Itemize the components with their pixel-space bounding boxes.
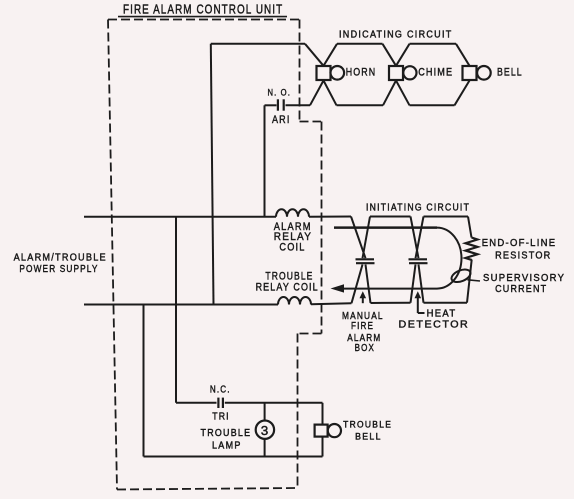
- svg-text:BOX: BOX: [355, 342, 375, 353]
- svg-text:CHIME: CHIME: [418, 67, 453, 79]
- wire: horn top-left diagonal: [305, 44, 324, 66]
- manual box bottom-left diagonal: [352, 265, 363, 304]
- wire: horn bottom-left diagonal: [310, 81, 324, 106]
- dashed enclosure right edge lower segment: [297, 334, 299, 489]
- dashed enclosure left edge: [108, 20, 117, 490]
- svg-text:BELL: BELL: [497, 67, 523, 79]
- wire: chime top-left diagonal: [383, 44, 397, 66]
- contact bar 1 of manual fire alarm box: [356, 258, 375, 260]
- wire: lamp branch upper: [264, 403, 266, 421]
- wire: chime bottom-right diagonal: [396, 81, 410, 106]
- heat detector top-right diagonal: [416, 217, 424, 259]
- wire: indicating return vertical: [211, 44, 214, 305]
- wire: coil to initiating circuit: [309, 216, 351, 218]
- wire: horn bottom-right diagonal: [324, 81, 337, 106]
- svg-text:END-OF-LINE: END-OF-LINE: [482, 238, 557, 249]
- svg-text:HORN: HORN: [346, 67, 376, 79]
- svg-text:TROUBLE: TROUBLE: [343, 419, 392, 429]
- bell appliance gong circle: [477, 66, 491, 80]
- wire: bottom flat chime-bell: [410, 104, 455, 106]
- svg-text:TRI: TRI: [212, 411, 230, 423]
- svg-text:N.C.: N.C.: [210, 384, 231, 395]
- dashed enclosure bottom edge: [117, 488, 298, 490]
- trouble lamp circle: [256, 421, 274, 439]
- manual box bottom-right diagonal: [366, 265, 371, 304]
- trouble bell gong circle: [328, 424, 341, 437]
- svg-text:RELAY COIL: RELAY COIL: [256, 282, 319, 294]
- chime appliance square: [389, 66, 403, 80]
- trouble bell square: [315, 425, 328, 437]
- svg-text:INDICATING CIRCUIT: INDICATING CIRCUIT: [339, 28, 453, 39]
- supervisory loop arc: [437, 228, 461, 289]
- svg-text:RESISTOR: RESISTOR: [495, 250, 551, 262]
- svg-text:POWER SUPPLY: POWER SUPPLY: [19, 263, 98, 274]
- resistor R1 end-of-line: [466, 238, 478, 260]
- initiating device Q1 top-right diagonal: [363, 217, 371, 259]
- svg-text:DETECTOR: DETECTOR: [399, 320, 470, 330]
- wire: EOL top lead: [468, 217, 472, 238]
- alarm relay coil L1: [276, 209, 309, 217]
- wire: initiating top flat between devices: [370, 216, 411, 218]
- pointer arrow to manual fire alarm box: [362, 296, 364, 303]
- wire: trouble bell branch vertical: [143, 305, 145, 457]
- wire: ARI right lead: [286, 104, 311, 106]
- svg-text:FIRE: FIRE: [351, 320, 374, 331]
- svg-text:ALARM/TROUBLE: ALARM/TROUBLE: [14, 252, 107, 264]
- wire: bottom return to trouble bell: [144, 456, 323, 458]
- dashed enclosure jog at ARI: [300, 121, 322, 123]
- svg-text:TROUBLE: TROUBLE: [201, 428, 252, 438]
- trouble relay coil L2: [278, 297, 311, 304]
- wire: EOL bottom lead: [467, 260, 472, 303]
- wire: initiating bottom flat between devices: [371, 302, 411, 304]
- leader to supervisory label: [468, 280, 481, 281]
- wire: top power bus: [84, 216, 276, 218]
- title underline: [118, 16, 287, 18]
- wire: ARI branch vertical: [264, 105, 266, 217]
- svg-text:LAMP: LAMP: [212, 439, 242, 450]
- wire: lamp branch lower: [264, 439, 266, 457]
- svg-text:CURRENT: CURRENT: [495, 283, 547, 295]
- dashed enclosure right edge upper segment: [299, 20, 301, 122]
- wire: trouble coil to initiating circuit bottom: [311, 303, 352, 304]
- wire: bell top-left diagonal: [456, 44, 470, 66]
- svg-text:HEAT: HEAT: [427, 308, 457, 319]
- svg-text:INITIATING CIRCUIT: INITIATING CIRCUIT: [366, 202, 470, 213]
- wire: trouble bell branch lower: [322, 437, 324, 457]
- svg-text:ARI: ARI: [272, 114, 291, 126]
- wire: indicating top horizontal: [211, 43, 305, 45]
- wire: ARI left lead: [265, 104, 277, 106]
- svg-text:BELL: BELL: [355, 431, 382, 441]
- contact bar 2 of heat detector: [409, 262, 428, 264]
- wire: bottom power bus: [84, 304, 278, 306]
- wire: supervisory out line: [334, 226, 437, 229]
- contact ARI normally-open bar 2: [283, 99, 285, 110]
- initiating device Q2 heat detector top-left diagonal: [411, 217, 419, 259]
- wire: TRI branch vertical: [175, 217, 177, 403]
- bell appliance square: [463, 66, 477, 80]
- pointer arrow to heat detector with leader: [417, 296, 419, 313]
- dashed enclosure right edge middle segment: [321, 122, 323, 334]
- wire: bottom flat horn-chime: [337, 104, 384, 106]
- wire: initiating top flat right: [424, 216, 469, 218]
- contact bar 2 of manual fire alarm box: [356, 262, 375, 264]
- wire: top flat chime-bell: [410, 43, 457, 45]
- wire: bell bottom-left diagonal: [455, 81, 470, 106]
- wire: N.C. line left segment: [176, 402, 217, 404]
- contact ARI normally-open bar 1: [277, 99, 279, 110]
- heat detector bottom-right diagonal: [419, 265, 424, 303]
- svg-text:3: 3: [261, 423, 270, 438]
- wire: initiating bottom flat right: [424, 302, 468, 304]
- svg-text:N. O.: N. O.: [268, 87, 291, 98]
- contact bar 1 of heat detector: [409, 258, 428, 260]
- wire: trouble bell branch upper: [322, 403, 324, 425]
- svg-text:COIL: COIL: [279, 242, 305, 254]
- contact TRI bar 2: [222, 398, 224, 408]
- contact TRI bar 1: [217, 398, 219, 408]
- wire: supervisory return line: [342, 288, 437, 290]
- heat detector bottom-left diagonal: [411, 265, 416, 303]
- wire: chime bottom-left diagonal: [383, 81, 396, 106]
- dashed enclosure: fire alarm control unit boundary top edge: [108, 19, 299, 21]
- svg-text:FIRE ALARM CONTROL UNIT: FIRE ALARM CONTROL UNIT: [123, 3, 283, 16]
- horn appliance square: [317, 66, 331, 80]
- wire: horn top-right diagonal: [324, 44, 338, 66]
- horn appliance gong circle: [331, 66, 345, 80]
- supervisory current loop ellipse: [450, 267, 473, 285]
- arrowhead on supervisory return: [331, 284, 345, 292]
- wire: N.C. line right segment: [225, 402, 323, 404]
- chime appliance gong circle: [403, 66, 416, 79]
- wire: top flat horn-chime: [337, 43, 383, 45]
- dashed enclosure jog near trouble relay: [298, 333, 322, 335]
- wire: chime top-right diagonal: [396, 44, 410, 66]
- initiating device Q1 manual box top-left diagonal: [351, 217, 366, 259]
